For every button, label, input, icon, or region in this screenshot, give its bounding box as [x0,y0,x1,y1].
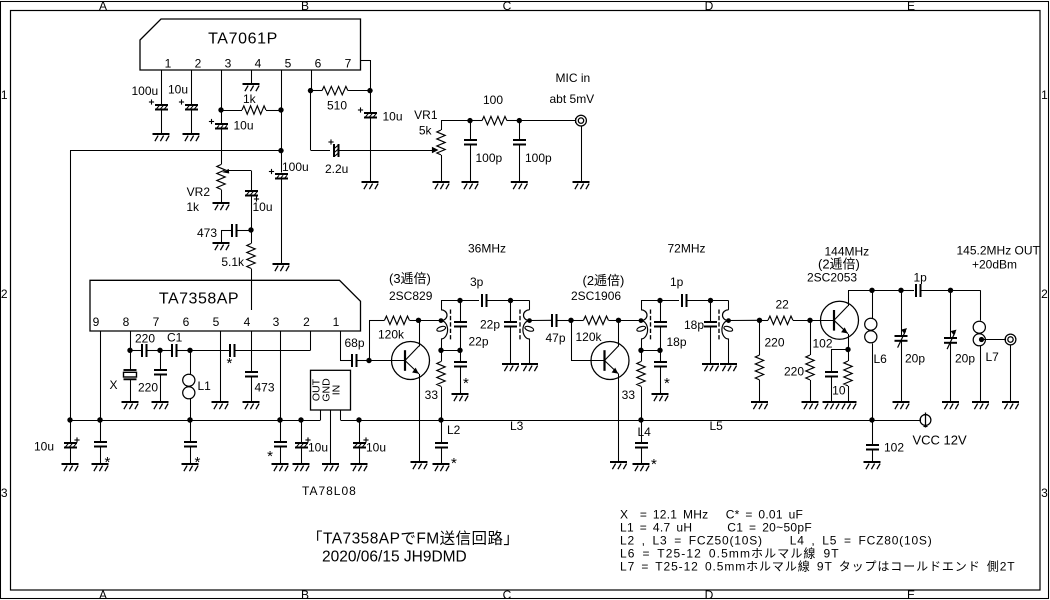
svg-text:22: 22 [776,298,790,312]
svg-text:7: 7 [345,57,352,71]
svg-text:100u: 100u [282,160,309,174]
svg-text:B: B [301,0,309,13]
svg-text:L1: L1 [198,379,212,393]
svg-text:L2: L2 [447,423,461,437]
svg-text:*: * [451,455,457,472]
svg-text:E: E [907,0,915,13]
svg-text:2SC1906: 2SC1906 [571,289,621,303]
svg-text:IN: IN [331,385,343,396]
svg-text:TA7061P: TA7061P [208,31,278,48]
svg-text:7: 7 [153,315,160,329]
svg-text:220: 220 [765,336,785,350]
svg-text:18p: 18p [684,318,704,332]
svg-text:72MHz: 72MHz [668,242,706,256]
svg-text:10u: 10u [34,440,54,454]
svg-text:1p: 1p [670,275,684,289]
svg-text:3: 3 [225,57,232,71]
svg-text:6: 6 [315,57,322,71]
svg-text:5: 5 [285,57,292,71]
svg-text:(2逓倍): (2逓倍) [583,273,625,288]
svg-text:47p: 47p [546,331,566,345]
svg-text:22p: 22p [480,318,500,332]
svg-text:X = 12.1 MHz C* = 0.01 uF: X = 12.1 MHz C* = 0.01 uF [620,508,803,522]
svg-text:20p: 20p [905,352,925,366]
svg-text:2020/06/15 JH9DMD: 2020/06/15 JH9DMD [322,549,467,566]
svg-text:B: B [301,588,309,600]
svg-text:*: * [227,355,233,372]
svg-text:10: 10 [832,384,846,398]
svg-text:1: 1 [165,57,172,71]
svg-text:+20dBm: +20dBm [972,258,1017,272]
svg-text:VR2: VR2 [187,185,211,199]
svg-text:10u: 10u [383,110,403,124]
svg-text:220: 220 [138,381,158,395]
svg-text:33: 33 [622,388,636,402]
svg-text:120k: 120k [576,330,603,344]
svg-text:100u: 100u [132,84,159,98]
svg-text:*: * [664,375,670,392]
svg-text:1k: 1k [243,92,257,106]
svg-text:1: 1 [1,88,8,102]
svg-text:10u: 10u [366,441,386,455]
svg-text:L6: L6 [874,352,888,366]
svg-text:5.1k: 5.1k [221,255,245,269]
svg-text:473: 473 [197,226,217,240]
svg-text:4: 4 [244,315,251,329]
svg-text:4: 4 [255,57,262,71]
svg-text:L5: L5 [710,419,724,433]
svg-text:TA7358AP: TA7358AP [159,291,239,308]
svg-text:9: 9 [93,315,100,329]
svg-text:3p: 3p [470,275,484,289]
svg-text:1: 1 [1041,88,1048,102]
svg-text:3: 3 [1,486,8,500]
svg-text:510: 510 [327,99,347,113]
svg-text:abt 5mV: abt 5mV [550,92,595,106]
svg-text:33: 33 [425,388,439,402]
svg-text:2SC2053: 2SC2053 [807,271,857,285]
svg-text:X: X [109,378,117,392]
svg-text:22p: 22p [469,335,489,349]
svg-text:2: 2 [1041,287,1048,301]
svg-text:5k: 5k [419,124,433,138]
svg-text:18p: 18p [667,335,687,349]
svg-text:1k: 1k [186,200,200,214]
svg-text:100: 100 [483,93,503,107]
svg-text:E: E [907,588,915,600]
svg-text:220: 220 [135,332,155,346]
svg-text:220: 220 [784,365,804,379]
svg-text:A: A [99,588,107,600]
svg-text:(3逓倍): (3逓倍) [389,271,431,286]
svg-text:VR1: VR1 [414,108,438,122]
svg-text:2: 2 [195,57,202,71]
svg-text:102: 102 [813,337,833,351]
svg-text:145.2MHz OUT: 145.2MHz OUT [957,244,1041,258]
svg-text:100p: 100p [525,151,552,165]
svg-text:*: * [463,375,469,392]
svg-text:C: C [503,588,512,600]
svg-text:68p: 68p [345,336,365,350]
svg-text:473: 473 [255,381,275,395]
svg-text:L1 = 4.7 uH C1 = 20~50pF: L1 = 4.7 uH C1 = 20~50pF [620,521,812,535]
svg-text:*: * [651,456,657,473]
svg-text:36MHz: 36MHz [468,242,506,256]
svg-text:C1: C1 [167,331,183,345]
svg-text:1p: 1p [914,271,928,285]
svg-text:*: * [267,448,273,465]
svg-text:(2逓倍): (2逓倍) [818,257,860,272]
svg-text:2SC829: 2SC829 [389,289,433,303]
svg-text:6: 6 [183,315,190,329]
svg-text:1: 1 [333,315,340,329]
svg-text:「TA7358APでFM送信回路」: 「TA7358APでFM送信回路」 [307,530,519,548]
svg-text:L4: L4 [638,425,652,439]
svg-text:100p: 100p [476,151,503,165]
svg-text:MIC in: MIC in [556,71,591,85]
svg-text:2: 2 [303,315,310,329]
svg-text:L2 , L3 = FCZ50(10S) L4 , L: L2 , L3 = FCZ50(10S) L4 , L5 = FCZ80(10S… [620,534,933,548]
svg-text:10u: 10u [253,200,273,214]
svg-text:D: D [705,588,714,600]
svg-text:D: D [705,0,714,13]
svg-text:L6 = T25-12 0.5mmホルマル線 9T: L6 = T25-12 0.5mmホルマル線 9T [620,546,840,561]
svg-text:20p: 20p [955,352,975,366]
svg-text:2.2u: 2.2u [325,162,348,176]
svg-text:10u: 10u [308,441,328,455]
svg-text:3: 3 [1041,486,1048,500]
svg-text:8: 8 [123,315,130,329]
svg-text:L7 = T25-12 0.5mmホルマル線 9T タップは: L7 = T25-12 0.5mmホルマル線 9T タップはコールドエンド 側2… [620,559,1016,574]
svg-text:C: C [503,0,512,13]
svg-text:L3: L3 [510,419,524,433]
svg-text:TA78L08: TA78L08 [302,484,357,498]
svg-text:2: 2 [1,287,8,301]
svg-text:10u: 10u [234,119,254,133]
svg-text:120k: 120k [378,328,405,342]
svg-text:VCC 12V: VCC 12V [913,433,968,448]
svg-text:*: * [195,454,201,471]
svg-text:A: A [99,0,107,13]
svg-text:10u: 10u [168,83,188,97]
svg-text:*: * [105,454,111,471]
svg-text:L7: L7 [986,350,1000,364]
svg-text:5: 5 [213,315,220,329]
svg-text:3: 3 [273,315,280,329]
svg-text:102: 102 [884,441,904,455]
